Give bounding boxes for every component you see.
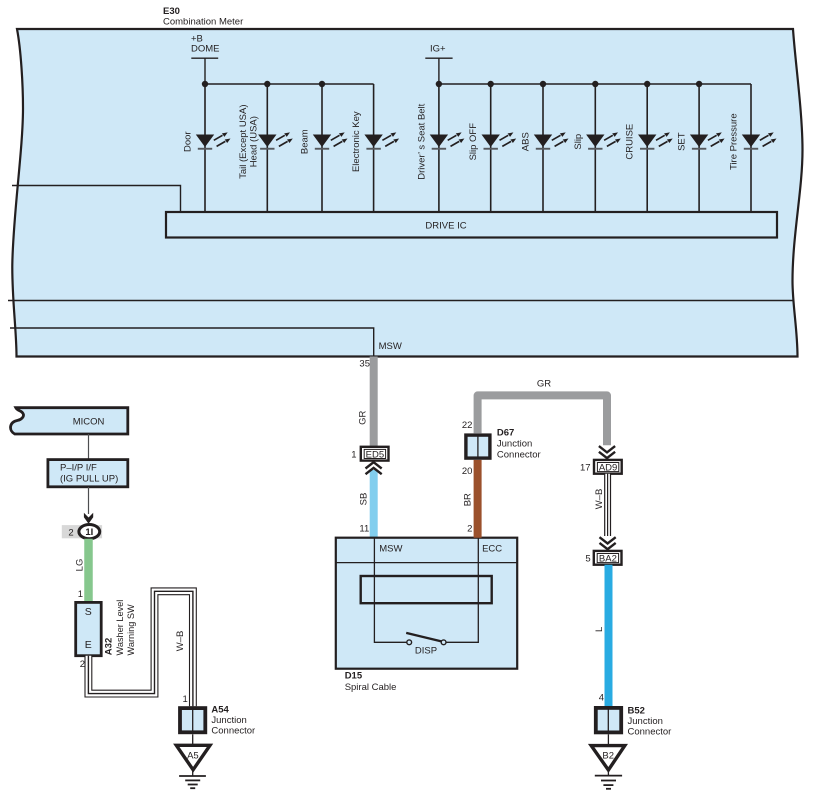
svg-text:Junction: Junction [211,715,246,726]
svg-text:A32: A32 [103,638,114,655]
junction connector D67 [466,435,490,458]
wire L [605,565,613,706]
LED SET [690,132,725,149]
wire Slip OFF vertical [490,84,492,212]
svg-text:Junction: Junction [628,716,663,727]
svg-text:CRUISE: CRUISE [625,124,636,160]
svg-text:22: 22 [462,420,473,431]
svg-text:2: 2 [68,527,73,538]
wire Electronic Key vertical [373,84,375,212]
wire MSW internal [10,328,374,357]
svg-text:Warning SW: Warning SW [126,604,136,656]
svg-text:20: 20 [462,466,473,477]
junction dot [540,81,546,87]
wire BR [474,460,482,538]
svg-text:A5: A5 [187,751,199,762]
LED Tire Pressure [742,132,777,149]
svg-text:BR: BR [463,493,474,506]
svg-text:4: 4 [599,693,604,704]
svg-text:Driver’ s Seat Belt: Driver’ s Seat Belt [416,103,427,179]
svg-text:A54: A54 [211,705,229,716]
svg-text:GR: GR [357,411,368,425]
spiral cable inner rect [361,576,492,603]
svg-text:Slip: Slip [573,134,584,150]
svg-text:1I: 1I [85,527,93,538]
node IG+ terminal bar [425,57,452,59]
LED Door [196,132,231,149]
svg-text:MSW: MSW [379,341,402,352]
ground B2 [591,734,625,789]
svg-text:Connector: Connector [628,727,672,738]
svg-text:ABS: ABS [521,132,532,151]
LED Electronic Key [364,132,399,149]
LED Slip [586,132,621,149]
svg-text:MSW: MSW [379,544,402,555]
node band [62,525,102,538]
wire Beam vertical [321,84,323,212]
wire MICON to P-I/P [88,434,90,460]
wire LG [84,539,93,603]
svg-text:E: E [85,639,92,651]
chevron down arrows to AD9 [599,446,615,452]
svg-text:MICON: MICON [73,417,105,428]
svg-text:Head (USA): Head (USA) [248,116,259,167]
combination meter E30 shape [12,29,802,357]
LED ABS [534,132,569,149]
svg-text:ED5: ED5 [366,450,384,461]
wire Drivers Seat Belt vertical [438,84,440,212]
wire bus1 [205,83,374,85]
svg-text:DISP: DISP [415,646,437,657]
chevron down arrows to BA2 [600,537,616,543]
wire ABS vertical [542,84,544,212]
connector ED5 [361,447,389,461]
connector BA2 [594,551,622,565]
wire W-B loop left [88,591,192,706]
wire Tail vertical [266,84,268,212]
wire GR gray loop [478,395,607,445]
svg-text:Door: Door [183,131,194,152]
wire ECC inside [446,538,479,643]
wire IG+ vertical [438,58,440,84]
svg-text:D67: D67 [497,428,514,439]
svg-text:LG: LG [75,559,86,572]
ground A5 [176,734,210,788]
junction dot [488,81,494,87]
svg-text:B2: B2 [602,751,614,762]
box MICON [11,408,128,434]
svg-text:Connector: Connector [497,450,541,461]
svg-text:B52: B52 [628,706,645,717]
svg-text:W–B: W–B [594,489,605,510]
svg-text:IG+: IG+ [430,44,446,55]
junction dot [319,81,325,87]
svg-text:1: 1 [78,589,83,600]
svg-text:DRIVE IC: DRIVE IC [425,221,466,232]
wire SET vertical [698,84,700,212]
connector AD9 [594,460,622,474]
svg-text:11: 11 [359,524,369,535]
box DRIVE IC [166,212,777,238]
svg-text:Slip OFF: Slip OFF [468,123,479,161]
svg-text:E30: E30 [163,6,180,17]
svg-text:2: 2 [80,659,85,670]
svg-text:Beam: Beam [300,129,311,154]
wire P-I/P down [88,487,90,514]
wire MSW inside [374,538,407,643]
header divider [336,562,517,564]
wire Door vertical [204,84,206,212]
LED Slip OFF [482,132,517,149]
junction dot [264,81,270,87]
svg-text:P–I/P I/F: P–I/P I/F [60,462,97,473]
svg-text:Washer Level: Washer Level [115,600,125,656]
junction dot [202,81,208,87]
svg-text:5: 5 [585,554,590,565]
svg-text:ECC: ECC [482,544,502,555]
svg-text:1: 1 [351,450,356,461]
svg-text:Tire Pressure: Tire Pressure [729,113,740,170]
svg-text:AD9: AD9 [599,463,617,474]
svg-text:Junction: Junction [497,439,532,450]
node oval 1I [79,525,100,539]
wire CRUISE vertical [646,84,648,212]
switch DISP [407,640,412,645]
wire +B vertical [204,58,206,84]
box D15 Spiral Cable [336,538,517,669]
svg-text:L: L [594,627,605,632]
svg-text:S: S [85,606,92,618]
svg-text:1: 1 [183,694,188,705]
junction dot [696,81,702,87]
svg-text:DOME: DOME [191,44,220,55]
svg-text:Electronic Key: Electronic Key [351,111,362,172]
junction dot [644,81,650,87]
svg-text:35: 35 [359,359,370,370]
svg-text:(IG PULL UP): (IG PULL UP) [60,474,118,485]
arrow head [84,513,93,524]
svg-text:SET: SET [677,132,688,151]
junction connector B52 [596,708,621,733]
svg-text:Connector: Connector [211,726,255,737]
box P-I/P I/F [48,460,128,487]
svg-text:W–B: W–B [175,631,186,652]
switch A32 box [76,602,102,655]
junction dot [592,81,598,87]
wire bus2 [439,83,751,85]
svg-text:D15: D15 [345,671,363,682]
svg-text:GR: GR [537,379,551,390]
svg-text:Spiral Cable: Spiral Cable [345,682,397,693]
wire internal bus line [8,300,794,302]
svg-text:Tail (Except USA): Tail (Except USA) [238,104,249,178]
wire SB [370,470,378,538]
wire step input to DRIVE IC [12,186,181,213]
LED Beam [313,132,348,149]
chevron up arrows [366,462,382,468]
svg-text:2: 2 [467,524,472,535]
svg-text:BA2: BA2 [599,554,617,565]
junction dot [436,81,442,87]
LED Drivers Seat Belt [430,132,465,149]
wire GR gray from meter [370,357,378,448]
LED Tail [258,132,293,149]
node +B terminal bar [191,57,218,59]
wire W-B right [604,474,611,536]
LED CRUISE [638,132,673,149]
svg-text:SB: SB [359,493,370,506]
wire Slip vertical [594,84,596,212]
junction connector A54 [180,708,205,732]
wire Tire Pressure vertical [750,84,752,212]
svg-text:17: 17 [580,463,591,474]
svg-text:Combination Meter: Combination Meter [163,17,243,28]
